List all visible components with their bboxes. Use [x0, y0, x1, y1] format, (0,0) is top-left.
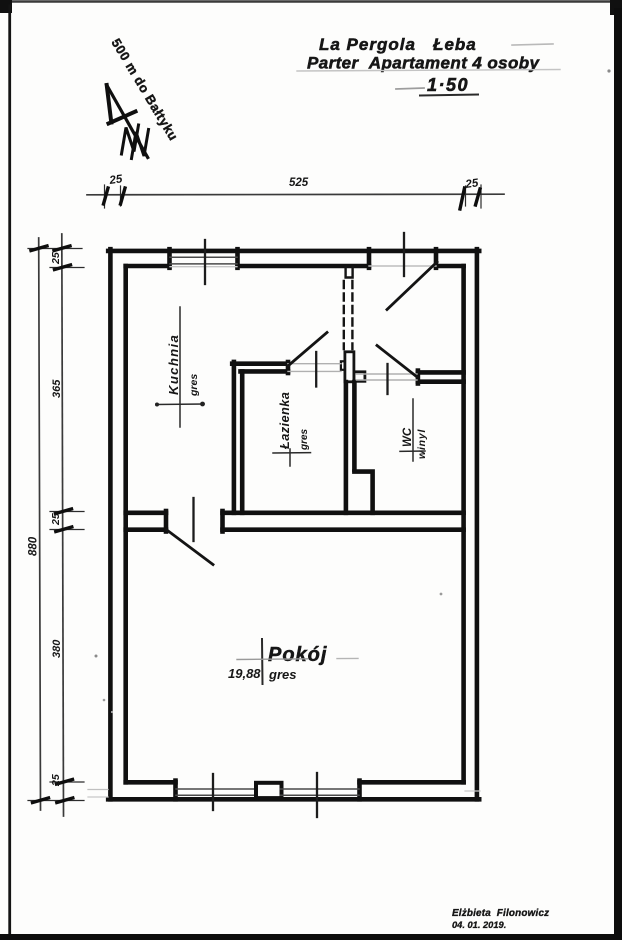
entrance opening faint line [369, 265, 436, 267]
border frame top-right corner blob [610, 0, 622, 15]
bottom window mullion box [256, 783, 282, 798]
svg-text:Elżbieta Filonowicz: Elżbieta Filonowicz [452, 908, 549, 919]
north arrow letter N [122, 125, 139, 154]
bottom wall inner line left block [126, 780, 176, 785]
top wall cap right block [434, 249, 439, 268]
wc axis horizontal line [400, 450, 425, 452]
north arrow shaft [107, 85, 148, 158]
top wall inner line middle block [238, 264, 370, 269]
svg-text:Pokój: Pokój [268, 644, 327, 666]
svg-text:gres: gres [268, 667, 296, 682]
bathroom axis horizontal line [273, 452, 311, 454]
window W1 faint inner line [170, 266, 237, 268]
pokoj axis vertical line [261, 639, 264, 684]
left dimension outer line 880 [39, 238, 41, 810]
top dim witness line right inner [465, 186, 467, 206]
svg-text:380: 380 [51, 639, 63, 658]
bottom window thin lines left [176, 788, 256, 790]
window W1 axis tick [204, 240, 206, 284]
border frame right bar [614, 8, 622, 940]
bottom wall outer line [108, 797, 479, 802]
svg-text:880: 880 [28, 536, 40, 556]
entrance door axis tick [403, 233, 405, 276]
left wall inner line [123, 266, 128, 782]
svg-text:525: 525 [289, 177, 309, 189]
bathroom door cap [286, 362, 291, 373]
right wall inner line [461, 266, 466, 782]
divider wall left cap [220, 511, 225, 532]
border frame bottom bar [0, 934, 622, 940]
title faint line after Leba [512, 44, 553, 45]
bottom wall cap left block [173, 781, 178, 800]
pokoj door swing [167, 530, 214, 565]
scale underline gray stub [396, 88, 424, 89]
top dim tick marks [104, 188, 481, 209]
svg-text:25: 25 [50, 774, 62, 787]
top wall inner line segment kitchen corner [126, 264, 170, 269]
bathroom door axis tick [315, 352, 317, 387]
top dim witness line left outer [104, 185, 106, 208]
north arrow head [107, 85, 136, 124]
chimney pilaster right arm [354, 372, 365, 382]
svg-text:04. 01. 2019.: 04. 01. 2019. [452, 920, 506, 930]
divider wall top line [223, 510, 464, 515]
divider wall bottom line [223, 527, 464, 532]
north arrow letter N second stroke [132, 130, 149, 159]
svg-text:WC: WC [402, 427, 414, 447]
top wall inner line right block [436, 264, 464, 269]
entrance door swing [387, 262, 437, 310]
right wall outer line [475, 249, 480, 799]
kitchen stub cap [164, 511, 169, 532]
bottom window axis tick left [212, 774, 214, 810]
kitchen axis vertical line [179, 307, 181, 427]
kitchen stub wall top line [126, 510, 166, 515]
wc axis vertical line [412, 399, 414, 461]
svg-text:25: 25 [108, 173, 124, 187]
bathroom axis vertical line [289, 449, 291, 466]
svg-text:gres: gres [188, 374, 200, 397]
left dimension inner line [62, 234, 64, 816]
bathroom door opening thin lines [288, 363, 341, 365]
top wall outer line [108, 249, 479, 254]
svg-text:365: 365 [51, 379, 63, 398]
duct dashed line left [343, 281, 345, 349]
svg-text:Łazienka: Łazienka [277, 392, 292, 450]
pencil overshoot bottom left [88, 789, 108, 791]
bathroom left wall lines [232, 362, 463, 513]
pokoj faint dash right [337, 657, 358, 659]
top dimension line [87, 193, 504, 196]
wc door swing [377, 346, 417, 377]
scale underline dark [420, 95, 478, 96]
chimney pilaster body [345, 352, 354, 382]
wc door opening thin lines [357, 373, 418, 375]
wc step wall [354, 472, 372, 513]
svg-text:winyl: winyl [416, 428, 428, 459]
pokoj door axis tick [192, 498, 194, 541]
bathroom right wall lines [344, 382, 349, 513]
bottom window axis tick right [316, 773, 318, 817]
kitchen axis horizontal line [156, 403, 204, 406]
bottom window thin lines right [281, 788, 360, 790]
top wall cap middle block right [367, 249, 372, 268]
duct notch on top wall [346, 267, 353, 278]
svg-text:19,88: 19,88 [228, 666, 261, 681]
top wall cap middle block left [235, 249, 240, 268]
svg-text:Kuchnia: Kuchnia [166, 334, 181, 395]
kitchen stub wall bottom line [126, 527, 166, 532]
bathroom door swing [289, 333, 328, 366]
svg-text:La Pergola Łeba: La Pergola Łeba [319, 35, 477, 54]
svg-text:500 m do Bałtyku: 500 m do Bałtyku [108, 36, 181, 144]
border frame top-left corner blob [0, 0, 12, 13]
svg-text:25: 25 [464, 177, 480, 191]
pokoj axis horizontal line [237, 658, 308, 661]
svg-text:1·50: 1·50 [427, 75, 469, 95]
left dim tick marks [31, 246, 73, 803]
border frame left line [8, 6, 11, 940]
stray specks [95, 655, 98, 658]
svg-text:25: 25 [50, 252, 62, 265]
svg-text:25: 25 [50, 513, 62, 526]
wc top wall cap [416, 371, 421, 384]
left wall outer line [108, 249, 113, 799]
window W1 top thin lines [170, 256, 237, 258]
svg-text:gres: gres [299, 428, 310, 451]
top dim witness line left inner [120, 186, 122, 206]
bottom wall inner line right block [360, 780, 464, 785]
top dim witness line right outer [480, 185, 482, 208]
bottom wall cap right block [357, 781, 362, 800]
border frame top line [0, 0, 622, 3]
kitchen axis end dots [155, 403, 159, 407]
title faint underline line 2 [297, 70, 560, 72]
wc door axis tick [386, 364, 388, 394]
bathroom top wall lines [232, 361, 288, 366]
duct dashed line right [351, 281, 353, 349]
chimney pilaster left notch [341, 361, 345, 370]
pencil overshoot bottom right [465, 790, 480, 792]
wc top wall lines [418, 370, 464, 375]
top wall cap at window1 left [167, 249, 172, 268]
left dim witness strokes [28, 249, 84, 801]
